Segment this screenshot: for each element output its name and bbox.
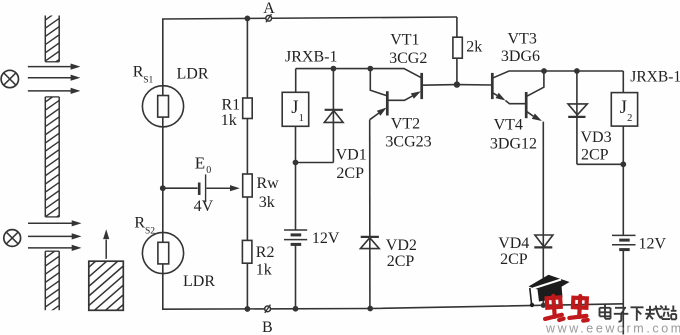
svg-text:VT1: VT1	[390, 32, 419, 49]
svg-text:0: 0	[206, 165, 211, 176]
svg-text:12V: 12V	[312, 230, 340, 247]
svg-text:VD1: VD1	[336, 147, 367, 164]
svg-text:S1: S1	[143, 76, 153, 86]
svg-text:R2: R2	[256, 244, 275, 261]
svg-text:R: R	[134, 215, 145, 232]
svg-text:12V: 12V	[639, 236, 667, 253]
svg-text:VT2: VT2	[391, 116, 420, 133]
svg-text:J: J	[620, 98, 627, 118]
svg-text:2CP: 2CP	[387, 253, 415, 270]
svg-text:VT4: VT4	[494, 117, 523, 134]
svg-text:2CP: 2CP	[581, 146, 609, 163]
svg-text:3DG12: 3DG12	[490, 136, 537, 153]
svg-text:R: R	[133, 64, 144, 81]
svg-text:2CP: 2CP	[336, 165, 364, 182]
svg-text:LDR: LDR	[183, 273, 215, 290]
svg-text:S2: S2	[145, 226, 155, 236]
svg-text:JRXB-1: JRXB-1	[630, 69, 680, 86]
svg-text:3k: 3k	[259, 194, 275, 211]
svg-text:3CG23: 3CG23	[385, 134, 431, 151]
svg-text:VD2: VD2	[386, 237, 417, 254]
svg-text:1k: 1k	[256, 261, 272, 278]
svg-text:VT3: VT3	[508, 30, 537, 47]
svg-text:3CG2: 3CG2	[389, 50, 427, 67]
svg-text:3DG6: 3DG6	[501, 48, 540, 65]
svg-text:2: 2	[627, 113, 632, 124]
svg-text:E: E	[195, 154, 205, 173]
svg-text:VD4: VD4	[498, 235, 529, 252]
svg-text:A: A	[263, 0, 275, 17]
svg-text:1: 1	[299, 113, 304, 124]
svg-text:1k: 1k	[221, 112, 237, 129]
svg-text:2k: 2k	[466, 39, 482, 56]
svg-text:4V: 4V	[194, 198, 214, 215]
svg-text:Rw: Rw	[257, 175, 280, 192]
svg-text:JRXB-1: JRXB-1	[285, 48, 337, 65]
svg-text:B: B	[262, 319, 273, 335]
svg-text:2CP: 2CP	[500, 251, 528, 268]
svg-text:VD3: VD3	[581, 129, 612, 146]
svg-text:J: J	[291, 98, 298, 118]
svg-text:www.eeworm.com: www.eeworm.com	[545, 322, 680, 335]
svg-text:LDR: LDR	[177, 65, 209, 82]
